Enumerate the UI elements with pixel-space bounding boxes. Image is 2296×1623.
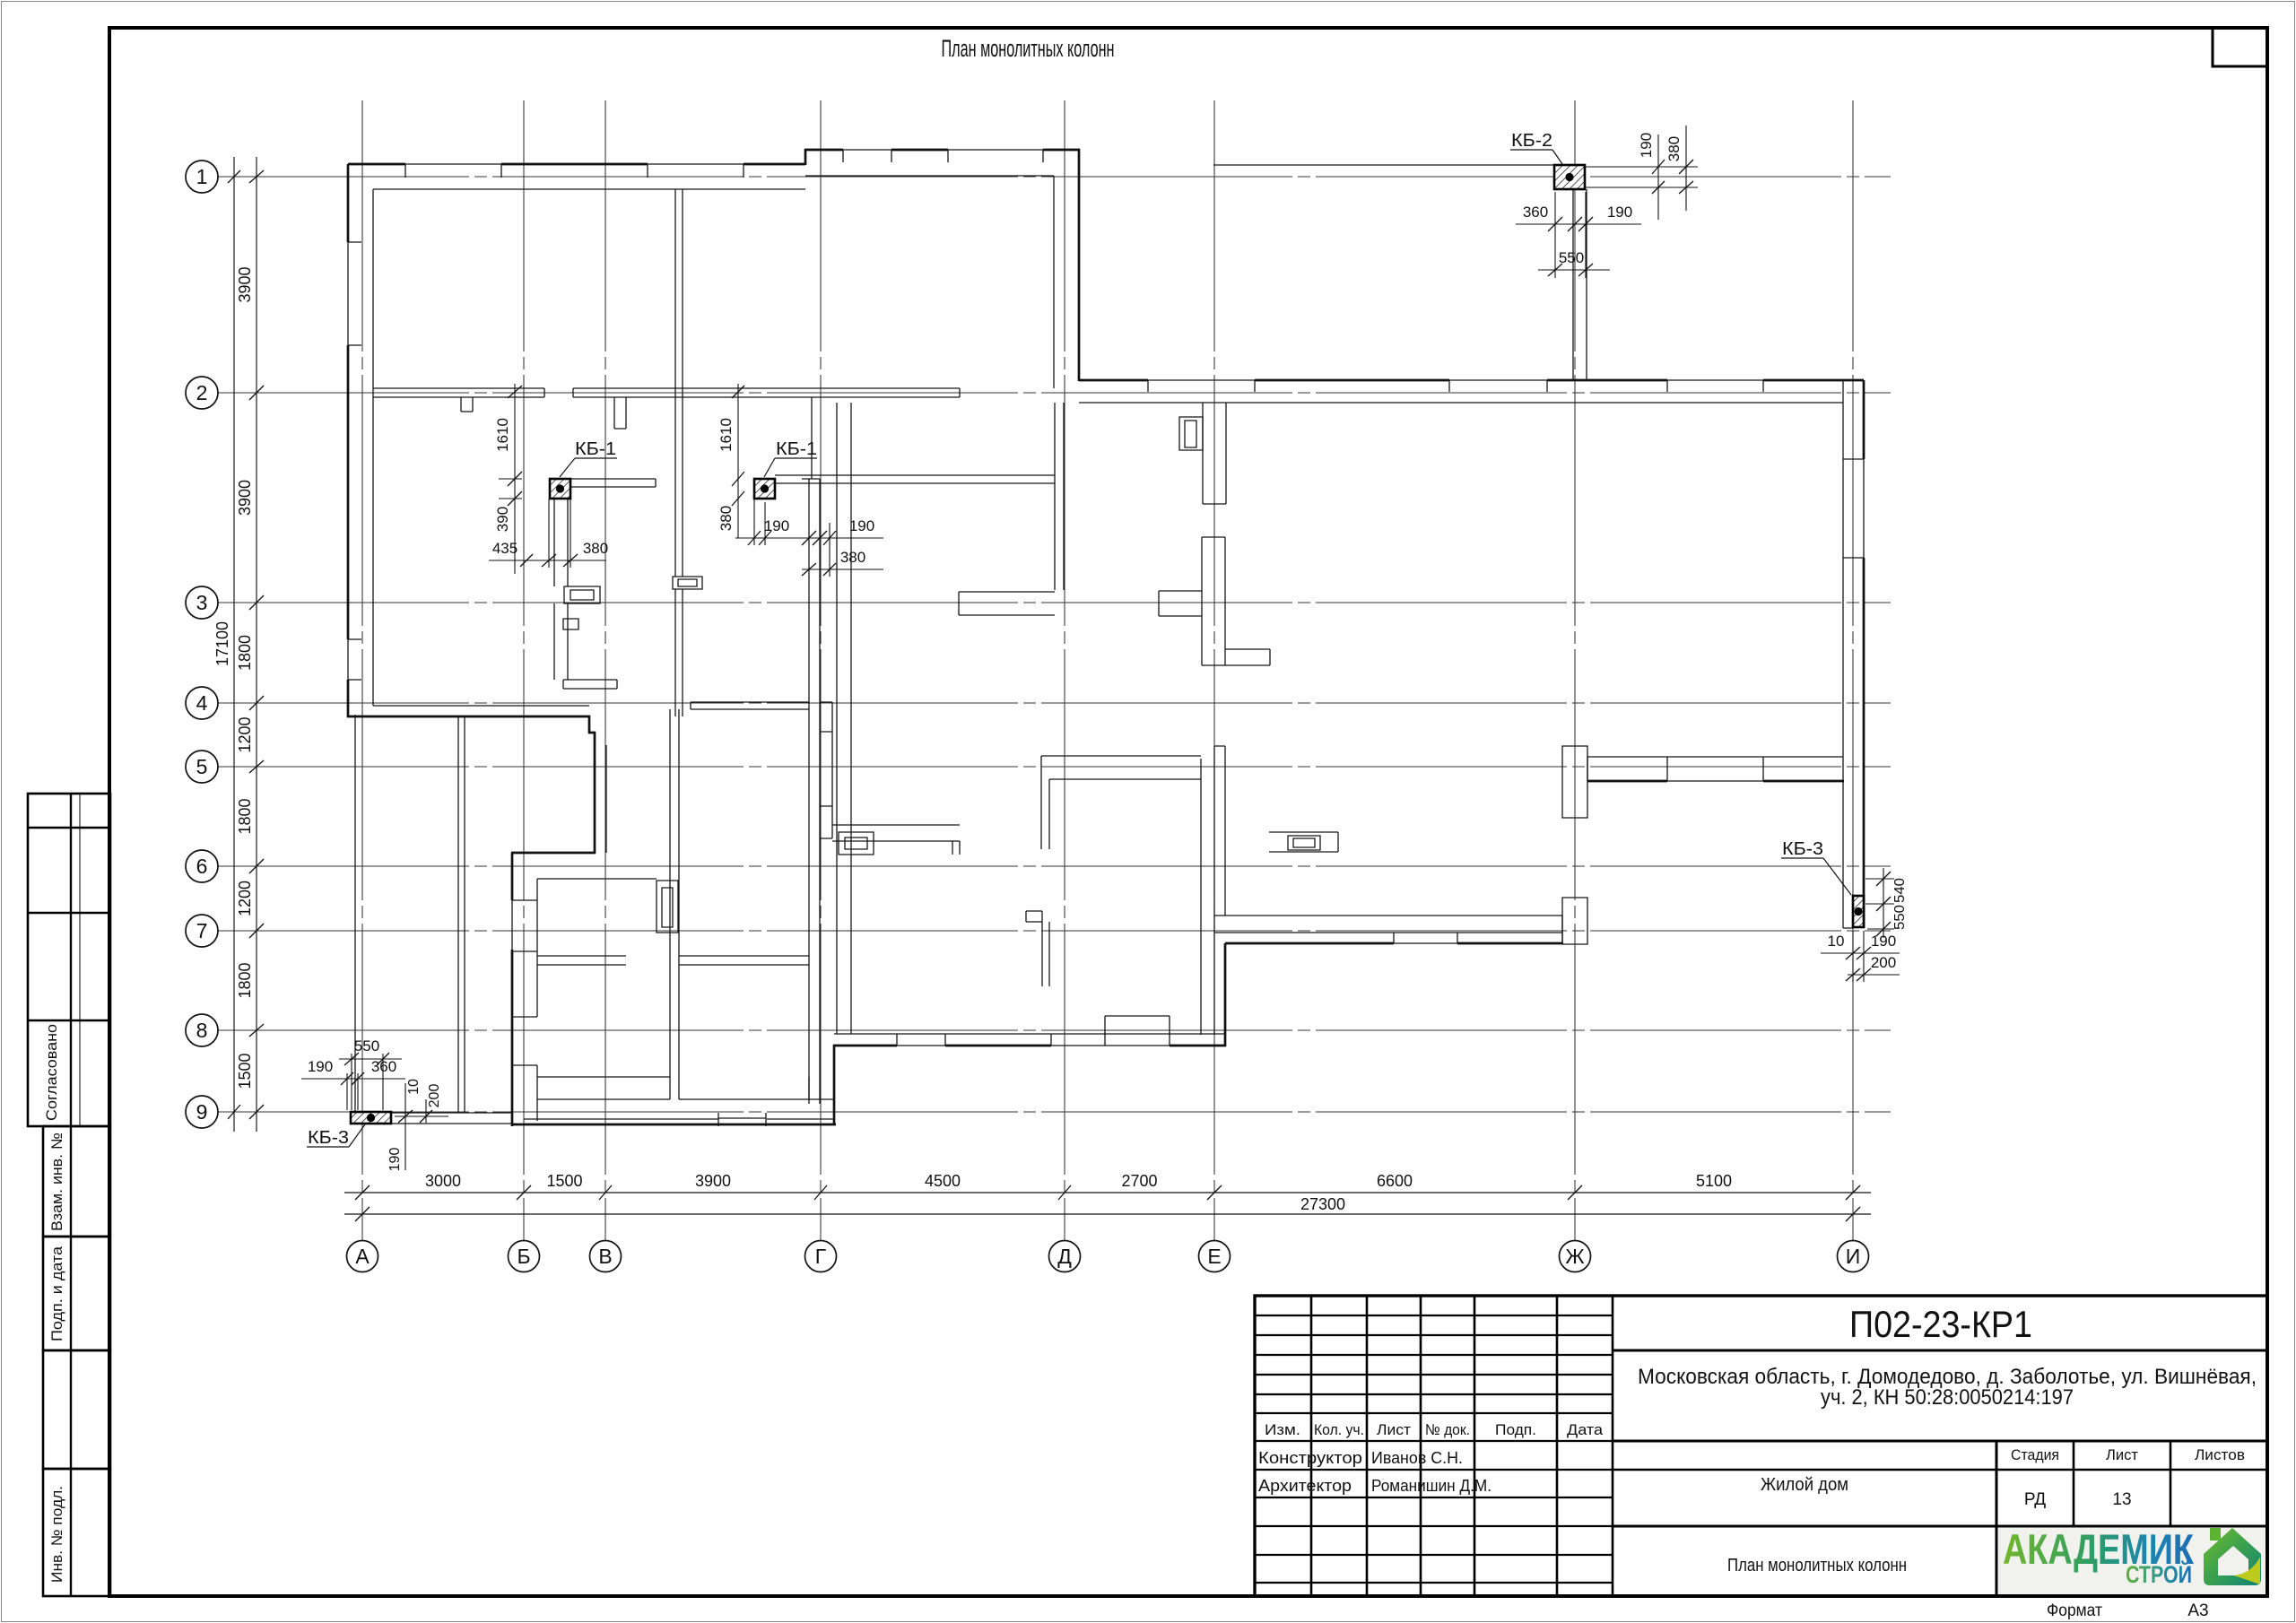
svg-text:10: 10 xyxy=(406,1079,422,1095)
top-right corner document box xyxy=(2213,28,2267,66)
grid axis 1 (horizontal) xyxy=(218,176,1891,178)
svg-text:380: 380 xyxy=(840,549,865,566)
dims at column КБ-2 (190/380, 360/190, 550) xyxy=(1585,167,1698,187)
wall: block1 left exterior wall outer face xyxy=(347,164,350,717)
svg-text:1610: 1610 xyxy=(494,418,511,452)
wall: left wall window lines and jambs xyxy=(348,242,361,680)
small window box below box1 xyxy=(563,619,578,629)
grid axis Д (vertical) xyxy=(1064,100,1065,1241)
porch edge lines (А..block2) xyxy=(391,1113,513,1124)
svg-text:200: 200 xyxy=(427,1084,442,1108)
wall: axis-2 wall inner face xyxy=(1079,402,1843,404)
svg-text:190: 190 xyxy=(849,517,874,534)
left dimension lines xyxy=(234,157,257,1132)
vent shaft box 3 xyxy=(839,832,874,855)
svg-text:Иванов С.Н.: Иванов С.Н. xyxy=(1371,1449,1463,1467)
logo house icon body xyxy=(2204,1528,2261,1585)
title block left table horizontals xyxy=(1255,1315,1613,1316)
svg-text:1: 1 xyxy=(196,165,208,188)
axis bubble В xyxy=(590,1241,622,1272)
svg-text:7: 7 xyxy=(196,919,208,942)
left attachment table: empty box xyxy=(43,1350,110,1469)
dims at column КБ-3 #2 (540/550, 10/190, 200) xyxy=(1883,868,1884,938)
svg-text:4: 4 xyxy=(196,691,208,715)
left attachment table: Согласовано block xyxy=(28,794,110,1126)
svg-text:1800: 1800 xyxy=(236,635,254,671)
canopy edge line from Е to КБ-2 xyxy=(1213,164,1554,166)
svg-text:5: 5 xyxy=(196,755,208,778)
axis bubble Е xyxy=(1199,1241,1231,1272)
logo house icon chimney xyxy=(2210,1528,2221,1541)
wall: partition stub below axis2 (x=691) xyxy=(614,397,626,429)
wall: pier at Ж (upper) xyxy=(1562,746,1587,818)
axis bubble 9 xyxy=(186,1096,218,1128)
svg-text:3900: 3900 xyxy=(695,1172,731,1190)
grid axis Ж (vertical) xyxy=(1574,100,1576,1241)
axis bubble Б xyxy=(509,1241,540,1272)
svg-text:550: 550 xyxy=(1892,905,1908,930)
svg-text:Лист: Лист xyxy=(1377,1421,1411,1438)
axis bubble Г xyxy=(805,1241,837,1272)
wall: block1 left wall inner face xyxy=(372,189,374,706)
grid axis 6 (horizontal) xyxy=(218,865,1891,867)
axis bubble 5 xyxy=(186,751,218,783)
logo house icon fold xyxy=(2234,1557,2260,1584)
wall: axis-2 wall window lines/jambs xyxy=(1148,379,1763,381)
svg-text:8: 8 xyxy=(196,1019,208,1042)
svg-text:1800: 1800 xyxy=(236,962,254,998)
svg-text:Кол. уч.: Кол. уч. xyxy=(1314,1421,1364,1438)
wall: partition right of column КБ-1#1 (y=538) xyxy=(570,479,656,487)
svg-text:П02-23-КР1: П02-23-КР1 xyxy=(1849,1303,2032,1345)
wall: axis-4 partition (y=783/791) xyxy=(691,702,809,709)
svg-text:Подп. и дата: Подп. и дата xyxy=(48,1245,65,1341)
axis bubble А xyxy=(347,1241,378,1272)
svg-text:Конструктор: Конструктор xyxy=(1258,1449,1362,1467)
svg-text:5100: 5100 xyxy=(1696,1172,1732,1190)
svg-text:Согласовано: Согласовано xyxy=(43,1024,60,1121)
wall: block2 room bottoms (y=1226) xyxy=(537,1077,834,1099)
grid axis А (vertical) xyxy=(361,100,363,1241)
wall: upper bump exterior wall outer face xyxy=(804,149,1080,152)
axis bubble 3 xyxy=(186,586,218,619)
svg-text:Листов: Листов xyxy=(2195,1446,2245,1463)
svg-text:360: 360 xyxy=(1523,204,1548,221)
grid axis И (vertical) xyxy=(1852,100,1854,1241)
svg-text:190: 190 xyxy=(387,1148,403,1172)
axis bubble Д xyxy=(1049,1241,1081,1272)
dims at column КБ-3 #1 (550, 190/360, 10/200, 190) xyxy=(339,1058,402,1060)
svg-text:РД: РД xyxy=(2024,1490,2046,1509)
vent shaft box 1 xyxy=(564,586,600,603)
grid axis Б (vertical) xyxy=(523,100,525,1241)
title block left table verticals xyxy=(1310,1296,1313,1596)
svg-text:1200: 1200 xyxy=(236,716,254,752)
wall: below КБ-2 column (x=1761) xyxy=(1573,189,1587,380)
svg-text:3000: 3000 xyxy=(425,1172,461,1190)
svg-text:А3: А3 xyxy=(2187,1601,2208,1620)
wall: partition x=1176/1186 below axis-2 wall xyxy=(1055,403,1064,590)
left attachment table: Взам. инв. № xyxy=(43,1126,110,1237)
axis bubble 2 xyxy=(186,377,218,409)
dims at column КБ-1 #2 (1610/380, 190/380) xyxy=(737,384,739,538)
svg-text:Б: Б xyxy=(517,1245,530,1268)
wall: block2 left exterior wall xyxy=(511,853,514,1126)
bottom dimension lines xyxy=(344,1193,1871,1214)
svg-text:3900: 3900 xyxy=(236,266,254,302)
wall: axis-7 wall (Д..Ж) xyxy=(1225,942,1563,945)
axis bubble 8 xyxy=(186,1014,218,1046)
wall: Е-axis wall pair above (x=1341/1367) xyxy=(1203,403,1226,504)
wall: block1 top wall inner faces xyxy=(373,176,1054,189)
svg-text:6: 6 xyxy=(196,855,208,878)
svg-text:2700: 2700 xyxy=(1121,1172,1157,1190)
vent shaft box 6 (tall, on corridor wall) xyxy=(657,881,678,933)
svg-text:6600: 6600 xyxy=(1377,1172,1413,1190)
svg-text:КБ-1: КБ-1 xyxy=(575,439,616,459)
wall: partition between top rooms (x=757) xyxy=(675,189,683,716)
svg-text:3: 3 xyxy=(196,591,208,614)
wall: partition below column КБ-1 (x=625) xyxy=(554,499,568,680)
left attachment table: Инв. № подл. xyxy=(43,1469,110,1596)
grid axis 8 (horizontal) xyxy=(218,1029,1891,1031)
svg-text:Е: Е xyxy=(1207,1245,1221,1268)
terrace edge line at А axis xyxy=(354,715,356,1112)
wall: block3 left wall pair x=933/949 xyxy=(837,403,851,1034)
svg-text:А: А xyxy=(355,1245,370,1268)
svg-text:1500: 1500 xyxy=(546,1172,582,1190)
svg-text:Подп.: Подп. xyxy=(1495,1421,1536,1438)
svg-text:1800: 1800 xyxy=(236,798,254,834)
svg-text:№ док.: № док. xyxy=(1425,1421,1470,1438)
wall: block1 right exterior wall (x=1203) xyxy=(1078,149,1081,381)
svg-text:Стадия: Стадия xyxy=(2011,1446,2059,1463)
grid axis В (vertical) xyxy=(604,100,606,1241)
logo cell background xyxy=(1998,1528,2266,1594)
grid axis Е (vertical) xyxy=(1213,100,1215,1241)
axis bubble 6 xyxy=(186,850,218,882)
axis bubble 1 xyxy=(186,161,218,193)
wall: block2 top exterior wall xyxy=(511,852,596,855)
grid axis 3 (horizontal) xyxy=(218,602,1891,603)
column КБ-1 #1 (hatched) xyxy=(550,479,570,499)
svg-text:190: 190 xyxy=(764,517,789,534)
wall: center room right at axis Е xyxy=(1201,746,1225,1035)
vent shaft box 2 (vertical) xyxy=(1179,417,1203,450)
svg-text:В: В xyxy=(598,1245,612,1268)
svg-text:10: 10 xyxy=(1828,933,1845,950)
svg-text:Романишин Д.М.: Романишин Д.М. xyxy=(1371,1477,1492,1495)
wall: block1 top exterior wall outer face (axis 1) xyxy=(348,163,805,166)
column КБ-3 #2 (hatched) xyxy=(1853,896,1864,927)
grid axis 4 (horizontal) xyxy=(218,702,1891,704)
grid axis Г (vertical) xyxy=(820,100,822,1241)
svg-text:КБ-2: КБ-2 xyxy=(1511,131,1552,151)
svg-text:Изм.: Изм. xyxy=(1265,1421,1300,1438)
svg-text:190: 190 xyxy=(308,1058,333,1075)
svg-text:3900: 3900 xyxy=(236,480,254,516)
wall: step from axis7 down to block3 bottom xyxy=(1224,943,1227,1046)
svg-text:Взам. инв. №: Взам. инв. № xyxy=(48,1133,65,1231)
wall: porch partition pair x=511/518 xyxy=(458,717,465,1113)
svg-text:27300: 27300 xyxy=(1300,1195,1345,1213)
wall: window jambs on top walls xyxy=(405,164,744,178)
wall: W5 partition (y=920/938) xyxy=(832,825,960,855)
svg-text:360: 360 xyxy=(371,1058,396,1075)
column КБ-1 #2 (hatched) xyxy=(754,479,775,499)
svg-text:КБ-3: КБ-3 xyxy=(308,1128,349,1148)
wall: window lines in top wall xyxy=(405,163,744,165)
wall: Е-axis H-shaped wall (y 599-742) xyxy=(1202,537,1225,665)
title block right part lines xyxy=(1613,1350,2267,1352)
wall: partition right of column КБ-1#2 (y=534) xyxy=(775,475,1055,483)
grid axis 7 (horizontal) xyxy=(218,930,1891,932)
svg-text:Жилой дом: Жилой дом xyxy=(1761,1475,1848,1495)
wall: corridor partitions y=1066/1076 xyxy=(537,956,809,965)
wall: W5-right stub xyxy=(1269,832,1338,852)
svg-text:9: 9 xyxy=(196,1100,208,1124)
svg-text:17100: 17100 xyxy=(213,621,231,666)
wall: pier below axis-2 wall xyxy=(461,397,473,412)
svg-text:Дата: Дата xyxy=(1567,1421,1604,1438)
svg-text:190: 190 xyxy=(1638,133,1655,158)
svg-text:Инв. № подл.: Инв. № подл. xyxy=(48,1486,65,1583)
svg-text:План монолитных колонн: План монолитных колонн xyxy=(1727,1556,1907,1575)
axis bubble 4 xyxy=(186,687,218,719)
vent shaft box 4 xyxy=(1288,836,1320,850)
svg-text:4500: 4500 xyxy=(925,1172,961,1190)
axis bubble 7 xyxy=(186,915,218,947)
svg-text:190: 190 xyxy=(1871,933,1896,950)
grid axis 9 (horizontal) xyxy=(218,1111,1891,1113)
wall: axis-3 partition piece (y=660/686) xyxy=(959,592,1055,615)
axis bubble И xyxy=(1838,1241,1869,1272)
svg-text:380: 380 xyxy=(717,506,735,531)
wall: block2 inner partition x=752 xyxy=(670,709,679,1099)
wall: long partition x=902/914 (axis Г area) xyxy=(802,397,820,1104)
svg-text:1610: 1610 xyxy=(717,418,735,452)
left attachment table: Подп. и дата xyxy=(43,1237,110,1350)
door niche in room bottom wall xyxy=(1105,1016,1170,1035)
title block outer frame xyxy=(1255,1296,2267,1596)
axis bubble Ж xyxy=(1560,1241,1591,1272)
svg-text:550: 550 xyxy=(1559,249,1584,266)
svg-text:Формат: Формат xyxy=(2047,1601,2102,1620)
svg-text:Архитектор: Архитектор xyxy=(1258,1477,1352,1495)
svg-text:уч. 2, КН 50:28:0050214:197: уч. 2, КН 50:28:0050214:197 xyxy=(1821,1385,2074,1410)
wall: pier at Ж (lower) xyxy=(1562,898,1587,944)
svg-text:Д: Д xyxy=(1057,1245,1072,1268)
wall: small partition stub (y=758..768) xyxy=(563,680,617,689)
svg-text:200: 200 xyxy=(1871,954,1896,971)
column КБ-2 (hatched) xyxy=(1554,165,1585,189)
wall: axis-2 exterior wall of block3 outer face xyxy=(1079,379,1864,382)
wall: center room top (y=843) xyxy=(1041,756,1201,849)
wall: block2 top inner face xyxy=(537,878,657,880)
wall: И exterior wall xyxy=(1863,380,1865,928)
wall: H-shape right flange xyxy=(1225,649,1270,665)
svg-text:Лист: Лист xyxy=(2106,1446,2138,1463)
wall: block1 bottom wall with step xyxy=(347,716,595,745)
svg-text:190: 190 xyxy=(1607,204,1632,221)
svg-text:1500: 1500 xyxy=(236,1053,254,1089)
svg-text:380: 380 xyxy=(1665,136,1683,161)
wall: block2 bottom wall (axis 9) xyxy=(512,1124,836,1126)
svg-text:1200: 1200 xyxy=(236,881,254,916)
svg-text:Г: Г xyxy=(815,1245,827,1268)
svg-text:550: 550 xyxy=(354,1037,379,1055)
wall: В-axis wall from block1 down to block2 xyxy=(594,745,596,854)
window box at foot of partition P1 xyxy=(673,577,702,589)
svg-text:КБ-3: КБ-3 xyxy=(1782,839,1823,859)
svg-text:СТРОЙ: СТРОЙ xyxy=(2126,1560,2192,1588)
svg-text:540: 540 xyxy=(1892,878,1908,903)
grid axis 5 (horizontal) xyxy=(218,766,1891,768)
wall: axis-2 partition of block1 xyxy=(373,388,960,397)
svg-text:И: И xyxy=(1846,1245,1861,1268)
dims at column КБ-1 #1 (1610/390, 435/380) xyxy=(514,384,516,574)
svg-text:План монолитных колонн: План монолитных колонн xyxy=(942,35,1115,62)
svg-text:13: 13 xyxy=(2112,1490,2131,1509)
logo house icon white opening xyxy=(2218,1546,2248,1575)
wall: joint corner wall down (x=930) xyxy=(833,1045,836,1124)
svg-text:2: 2 xyxy=(196,381,208,404)
svg-text:КБ-1: КБ-1 xyxy=(776,439,817,459)
wall: block3 bottom wall (y=1166) xyxy=(833,1045,1226,1047)
wall: H-shape left flange xyxy=(1159,591,1202,616)
wall: piers on Г wall (y=783..935) xyxy=(820,702,832,838)
grid axis 2 (horizontal) xyxy=(218,392,1891,394)
svg-text:435: 435 xyxy=(492,540,517,557)
svg-text:390: 390 xyxy=(494,507,511,532)
wall: step between wall levels at x=898 xyxy=(804,149,807,165)
small wall stub near (1155,1020) xyxy=(1026,911,1049,986)
svg-text:380: 380 xyxy=(583,540,608,557)
wall: axis-5 wall (Ж..И) xyxy=(1587,780,1844,783)
column КБ-3 #1 (hatched) xyxy=(351,1112,391,1124)
svg-text:Ж: Ж xyxy=(1565,1245,1584,1268)
